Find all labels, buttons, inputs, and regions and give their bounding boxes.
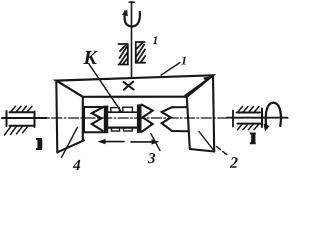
shaft I top end tick <box>129 1 134 3</box>
rotation arrow on shaft II right end <box>266 103 281 129</box>
shaft II centerline (dash-dot) <box>2 117 288 119</box>
label II right stroke1 <box>250 133 256 145</box>
bevel gear 2 cone back edge <box>199 132 214 151</box>
right bearing of shaft II: shoulder tick at x=262 <box>261 109 263 128</box>
label K glyph <box>83 51 98 64</box>
arrowhead of shaft II rotation arrow <box>264 124 270 132</box>
arrow inside gear 1 face <box>185 78 210 96</box>
bevel gear 2 inner face edge <box>187 97 190 149</box>
label II left stroke2 <box>40 140 42 148</box>
sleeve spline lug bottom-left <box>112 128 120 131</box>
left bearing of shaft II: shoulder tick <box>6 111 8 126</box>
jaw clutch half of gear 2: body <box>172 107 188 131</box>
arrowhead of shaft I rotation arrow <box>122 9 128 16</box>
shaft I vertical line <box>131 2 133 77</box>
label 4 glyph <box>73 160 81 170</box>
sliding sleeve 3 barrel top edge <box>108 111 137 113</box>
right bearing of shaft II: lower hatching <box>238 124 260 130</box>
leader line of label 3 <box>151 134 160 151</box>
leader line of label 1 <box>161 63 180 76</box>
shaft II solid right section <box>227 117 288 119</box>
shaft II solid left section <box>2 117 47 119</box>
right bearing of shaft II: upper hatching <box>238 107 260 113</box>
label I shaft glyph <box>153 36 157 44</box>
label 2 glyph <box>230 157 238 168</box>
left bearing of shaft II: tick at x=34 <box>34 112 36 128</box>
sleeve travel double arrow right half <box>131 141 155 143</box>
dashed leader line of label 2 <box>217 147 229 157</box>
label 1 glyph <box>181 57 186 65</box>
sleeve travel double arrow left half <box>101 141 124 143</box>
label II right stroke2 <box>253 135 255 143</box>
bevel gear 2 (right) outer edge <box>213 75 214 151</box>
fixed-joint mark x on gear 1 <box>124 82 134 90</box>
jaw clutch half of gear 2: teeth zigzag <box>162 107 172 131</box>
sleeve spline lug left <box>111 108 120 113</box>
right bearing of shaft II: lower contact line <box>238 123 262 125</box>
left bearing of shaft II: lower hatching <box>5 126 29 135</box>
bearing block left of shaft I <box>119 44 129 65</box>
jaw clutch half of gear 4 (engaged) body <box>84 107 108 132</box>
leader line of label 4 <box>62 128 78 158</box>
right bearing of shaft II: tick at x=233 <box>232 111 234 127</box>
left bearing of shaft II: upper contact line <box>10 111 34 113</box>
left bearing of shaft II: lower contact line <box>10 125 34 127</box>
jaw teeth engagement zigzag (left pair) <box>92 108 103 131</box>
bearing block right of shaft I <box>136 42 145 63</box>
sleeve spline lug right <box>123 107 133 112</box>
bevel gear 4 bottom edge <box>57 140 84 152</box>
sliding sleeve 3 left flange <box>104 106 108 133</box>
sleeve right jaw teeth zigzag <box>142 105 153 132</box>
bevel gear 4 (left) outer edge <box>56 81 57 153</box>
rotation arrow on shaft I <box>125 12 140 27</box>
leader line of label K <box>89 64 121 112</box>
left bearing of shaft II: upper hatching <box>11 106 33 112</box>
sliding sleeve 3 barrel bottom edge <box>108 126 138 128</box>
bevel gear 2 bottom edge <box>190 149 214 152</box>
label II left stroke1 <box>36 138 42 150</box>
right bearing of shaft II: upper contact line <box>237 112 261 114</box>
sliding sleeve 3 right flange <box>137 104 142 132</box>
bevel gear 1 on shaft I (top plate outline) <box>56 75 213 97</box>
bevel gear 4 inner face edge <box>82 97 84 141</box>
sleeve spline lug bottom-right <box>124 128 133 131</box>
label 3 glyph <box>148 153 155 163</box>
